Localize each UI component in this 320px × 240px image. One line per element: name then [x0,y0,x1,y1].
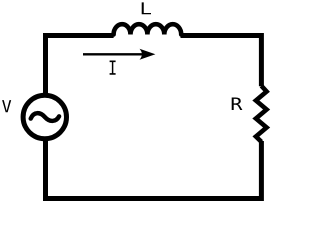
current label I [110,61,116,75]
wire inductor to top-right corner down to resistor [181,36,262,87]
current arrow shaft [83,53,148,55]
inductor L [114,24,182,34]
current arrow head [140,49,156,60]
resistor R [256,86,267,142]
ac source sine wave [31,113,59,121]
wire top-left: left branch upper segment + top wire to inductor [46,36,114,95]
ac source V1 circle [23,95,66,138]
value label V [2,100,11,112]
value label R [232,98,243,110]
wire resistor to bottom-right corner, bottom wire, up to source [46,141,262,199]
value label L [142,2,151,14]
